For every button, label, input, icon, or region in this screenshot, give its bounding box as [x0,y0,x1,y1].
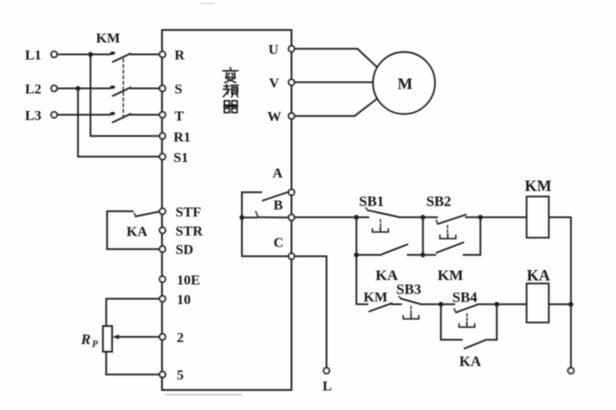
svg-text:P: P [92,340,98,350]
svg-text:U: U [268,43,278,58]
svg-text:L2: L2 [25,83,41,98]
svg-text:V: V [269,77,279,92]
svg-text:KM: KM [438,268,464,284]
svg-text:SB1: SB1 [359,194,384,210]
svg-text:L: L [323,380,332,395]
svg-text:KM: KM [364,291,388,306]
svg-text:S: S [175,83,183,98]
svg-text:STR: STR [176,225,204,240]
svg-text:KM: KM [525,178,552,195]
svg-text:KA: KA [127,225,149,240]
svg-text:R1: R1 [174,131,191,146]
svg-text:5: 5 [177,369,184,384]
svg-text:SD: SD [176,243,194,258]
svg-text:W: W [267,110,281,125]
svg-text:KM: KM [96,32,120,47]
svg-text:L3: L3 [25,109,41,124]
svg-text:T: T [175,109,185,124]
svg-text:SB3: SB3 [396,282,421,298]
svg-text:C: C [274,236,284,251]
svg-text:R: R [80,332,91,348]
svg-text:L1: L1 [25,49,41,64]
svg-text:SB4: SB4 [452,290,477,306]
svg-text:STF: STF [176,205,202,220]
svg-text:B: B [274,199,283,214]
svg-text:KA: KA [376,268,399,284]
svg-text:10: 10 [177,293,191,308]
svg-text:SB2: SB2 [426,194,451,210]
svg-text:A: A [273,167,284,182]
svg-text:M: M [398,76,413,93]
svg-text:2: 2 [177,331,184,346]
svg-text:R: R [175,49,186,64]
svg-text:KA: KA [527,268,551,285]
svg-text:S1: S1 [174,151,189,166]
svg-text:10E: 10E [177,273,200,288]
svg-text:KA: KA [459,354,481,370]
